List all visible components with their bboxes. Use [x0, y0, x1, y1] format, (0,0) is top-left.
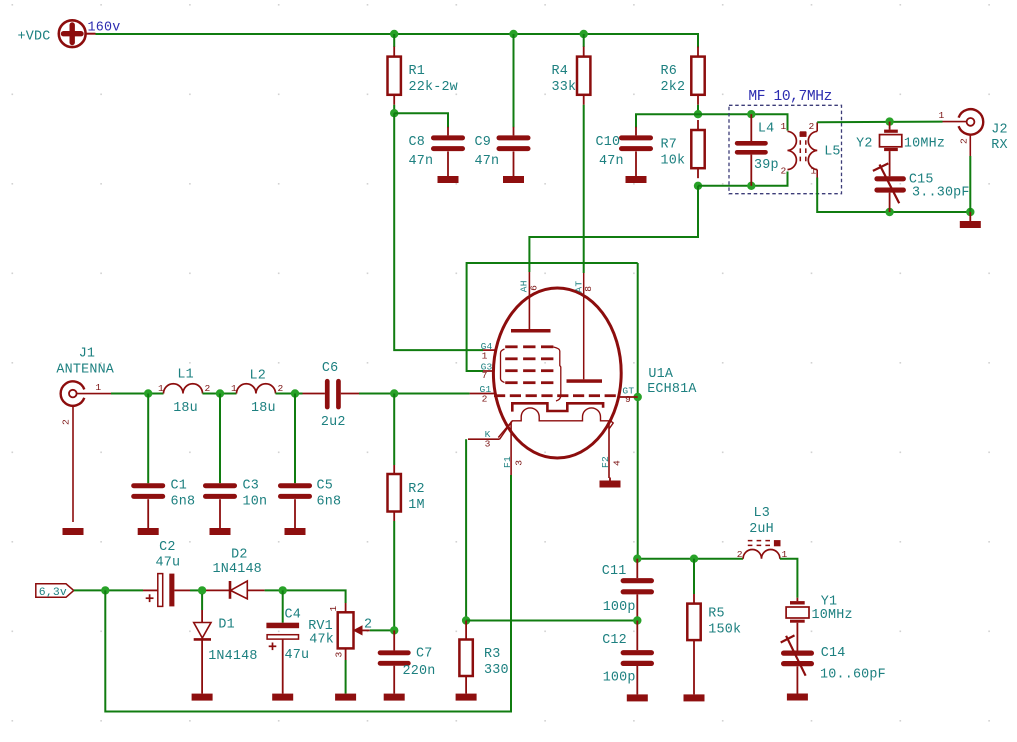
- tube U1A ECH81A envelope: [493, 288, 621, 458]
- ground C7: [384, 694, 405, 701]
- pin G4: [481, 341, 496, 361]
- ground C10: [626, 176, 647, 183]
- junction: [580, 30, 588, 38]
- svg-text:C4: C4: [285, 607, 301, 622]
- pin G1: [470, 384, 496, 404]
- svg-text:100p: 100p: [603, 670, 636, 685]
- diode D2: [206, 581, 265, 599]
- svg-text:150k: 150k: [708, 623, 741, 638]
- wire R1 top lead: [393, 34, 395, 47]
- svg-text:L1: L1: [177, 368, 193, 383]
- wire L3 to Y1: [780, 559, 798, 598]
- svg-text:C10: C10: [596, 135, 621, 150]
- svg-text:1N4148: 1N4148: [208, 649, 257, 664]
- ground C3: [210, 528, 231, 535]
- power symbol +VDC: [18, 20, 96, 47]
- transformer core: [799, 132, 801, 163]
- svg-text:L2: L2: [250, 369, 266, 384]
- svg-text:J2: J2: [991, 123, 1007, 138]
- svg-text:3: 3: [514, 460, 525, 466]
- junction: [633, 555, 641, 563]
- svg-text:18u: 18u: [173, 401, 198, 416]
- junction: [885, 208, 893, 216]
- svg-text:2: 2: [278, 383, 284, 394]
- svg-text:47n: 47n: [475, 154, 500, 169]
- junction: [747, 182, 755, 190]
- svg-text:C5: C5: [317, 479, 333, 494]
- svg-text:C1: C1: [171, 479, 187, 494]
- svg-text:47n: 47n: [599, 154, 624, 169]
- resistor R2: [388, 394, 425, 522]
- wire to C8: [394, 113, 448, 127]
- svg-text:220n: 220n: [403, 664, 436, 679]
- junction: [747, 110, 755, 118]
- svg-text:1N4148: 1N4148: [213, 562, 262, 577]
- resistor R4: [552, 47, 591, 105]
- svg-text:3..30pF: 3..30pF: [912, 186, 970, 201]
- pin K: [468, 421, 512, 450]
- svg-text:1M: 1M: [408, 498, 424, 513]
- svg-text:C7: C7: [416, 646, 432, 661]
- junction: [509, 30, 517, 38]
- svg-text:8: 8: [583, 286, 594, 292]
- svg-text:R1: R1: [409, 64, 425, 79]
- wire D2 to RV1: [265, 590, 346, 603]
- wire C10 to R6/R7 node: [636, 114, 698, 127]
- capacitor C12: [621, 621, 654, 695]
- capacitor C5: [278, 394, 312, 529]
- wire C8 to ground: [447, 151, 449, 176]
- wire L5 to J2: [817, 121, 942, 124]
- resistor R5: [687, 559, 741, 695]
- inductor L2: [237, 384, 276, 394]
- svg-text:4: 4: [612, 460, 623, 466]
- wire R2 bottom: [393, 521, 395, 630]
- ground D1: [192, 694, 213, 701]
- wire K node to C11/C12 node: [466, 620, 637, 622]
- tube control grid dashed row G1/GT: [494, 394, 616, 397]
- tube triode anode bar and lead: [567, 273, 603, 383]
- svg-text:L5: L5: [824, 145, 840, 160]
- pin F2: [600, 423, 623, 478]
- tube grid bracket left (G4): [501, 349, 505, 383]
- wire RV1 wiper to R2/C7 node: [370, 629, 394, 631]
- svg-text:2: 2: [61, 419, 72, 425]
- svg-text:Y2: Y2: [856, 136, 872, 151]
- svg-text:C8: C8: [409, 135, 425, 150]
- svg-text:47k: 47k: [309, 633, 334, 648]
- wire L2 to C6: [276, 393, 303, 395]
- diode D1: [194, 594, 211, 694]
- svg-text:47u: 47u: [156, 556, 181, 571]
- wire heater bus to F1: [105, 475, 511, 712]
- svg-text:D1: D1: [218, 618, 234, 633]
- junction: [291, 389, 299, 397]
- svg-text:22k-2w: 22k-2w: [409, 80, 458, 95]
- svg-text:R3: R3: [484, 647, 500, 662]
- pin AH lead into tube: [528, 272, 530, 330]
- potentiometer RV1: [328, 603, 370, 694]
- capacitor L4 parallel 39p: [735, 114, 768, 186]
- wire R4 bottom to tube AT (crosses AH wire): [583, 105, 585, 273]
- ground J2: [960, 212, 981, 228]
- svg-text:ECH81A: ECH81A: [647, 382, 697, 397]
- svg-text:2u2: 2u2: [321, 415, 346, 430]
- connector J2: [943, 109, 984, 156]
- crystal Y2: [880, 122, 902, 177]
- svg-text:+VDC: +VDC: [18, 29, 51, 44]
- pin GT: [619, 385, 638, 405]
- svg-text:9: 9: [625, 394, 631, 405]
- svg-text:C2: C2: [159, 540, 175, 555]
- ground C5: [285, 528, 306, 535]
- connector J1: [61, 381, 111, 522]
- svg-text:1: 1: [158, 383, 164, 394]
- junction: [634, 393, 642, 401]
- svg-text:R4: R4: [552, 64, 568, 79]
- capacitor C2 polarized: [143, 574, 190, 607]
- pin AH: [519, 280, 540, 292]
- tube cathode line: [498, 408, 613, 438]
- svg-text:C12: C12: [602, 633, 627, 648]
- svg-text:ANTENNA: ANTENNA: [56, 362, 114, 377]
- junction: [390, 109, 398, 117]
- capacitor C9: [497, 127, 531, 151]
- wire C9 top lead: [513, 34, 515, 128]
- svg-text:R5: R5: [708, 607, 724, 622]
- capacitor C11: [621, 559, 654, 621]
- wire R4 top lead: [583, 34, 585, 47]
- wire C2 to D2: [190, 589, 206, 591]
- svg-text:2: 2: [781, 166, 787, 177]
- inductor L4 primary winding: [788, 131, 797, 169]
- svg-text:1: 1: [781, 121, 787, 132]
- wire R1 bottom to junction: [393, 105, 395, 113]
- capacitor C3: [203, 394, 237, 529]
- svg-text:MF 10,7MHz: MF 10,7MHz: [748, 89, 832, 105]
- capacitor C6 series: [303, 379, 360, 410]
- svg-text:10k: 10k: [661, 154, 686, 169]
- junction: [633, 616, 641, 624]
- capacitor C4 polarized: [266, 590, 299, 693]
- svg-text:47n: 47n: [409, 154, 434, 169]
- wire K down: [465, 439, 467, 620]
- svg-text:R7: R7: [661, 138, 677, 153]
- svg-text:D2: D2: [231, 547, 247, 562]
- junction: [690, 555, 698, 563]
- ground C8: [438, 176, 459, 183]
- svg-text:6n8: 6n8: [171, 494, 196, 509]
- wire VDC bus: [96, 34, 699, 48]
- svg-text:C6: C6: [322, 361, 338, 376]
- ground C14: [787, 694, 808, 701]
- wire C10 to ground: [635, 151, 637, 176]
- wire 6,3v to C2: [74, 589, 143, 591]
- polarity square: [800, 131, 806, 137]
- crystal Y1: [786, 598, 809, 651]
- svg-text:1: 1: [95, 382, 101, 393]
- capacitor C1: [131, 394, 165, 529]
- svg-text:L4: L4: [758, 121, 774, 136]
- pin G3: [481, 361, 494, 381]
- pin F1: [502, 422, 525, 476]
- svg-text:6: 6: [528, 285, 539, 291]
- junction: [885, 117, 893, 125]
- svg-text:C11: C11: [602, 564, 627, 579]
- svg-text:10n: 10n: [243, 494, 268, 509]
- svg-text:J1: J1: [79, 347, 95, 362]
- svg-text:C14: C14: [821, 646, 846, 661]
- svg-text:L3: L3: [754, 506, 770, 521]
- inductor L1: [164, 384, 203, 394]
- ground RV1: [335, 694, 356, 701]
- tube screen rail: [512, 403, 603, 411]
- svg-text:10MHz: 10MHz: [904, 136, 945, 151]
- wire R6 bottom to junction: [697, 105, 699, 114]
- tube grid rows (heptode): [505, 345, 553, 384]
- wire L4 bottom: [698, 172, 788, 186]
- svg-text:1: 1: [328, 606, 339, 612]
- svg-text:1: 1: [482, 350, 488, 361]
- junction: [390, 389, 398, 397]
- capacitor C10: [619, 127, 653, 151]
- wire GT node to L3: [638, 558, 743, 560]
- trimmer capacitor C15: [873, 163, 906, 212]
- svg-text:2: 2: [737, 549, 743, 560]
- junction: [101, 586, 109, 594]
- wire L1 to L2: [203, 393, 237, 395]
- wire G3 to GT: [467, 263, 638, 371]
- svg-text:C9: C9: [475, 135, 491, 150]
- junction: [694, 110, 702, 118]
- junction: [216, 389, 224, 397]
- junction: [390, 30, 398, 38]
- tube heptode anode bar: [511, 329, 551, 333]
- svg-text:47u: 47u: [285, 648, 310, 663]
- resistor R3: [459, 621, 508, 694]
- ground R3: [456, 694, 477, 701]
- svg-text:2: 2: [205, 383, 211, 394]
- dashed box MF transformer: [729, 105, 842, 193]
- svg-text:3: 3: [334, 652, 345, 658]
- wire J2 pin2 down: [969, 156, 971, 212]
- capacitor C7: [378, 630, 411, 693]
- inductor L5 secondary winding: [808, 122, 817, 177]
- svg-text:39p: 39p: [754, 158, 779, 173]
- resistor R6: [661, 47, 705, 105]
- svg-text:2: 2: [959, 138, 970, 144]
- resistor R1: [388, 47, 458, 105]
- svg-text:F1: F1: [502, 456, 513, 468]
- svg-text:2: 2: [482, 394, 488, 405]
- global label 6,3v: [36, 584, 74, 599]
- capacitor C8: [431, 127, 465, 151]
- svg-text:R6: R6: [661, 64, 677, 79]
- svg-text:U1A: U1A: [648, 367, 673, 382]
- junction: [390, 626, 398, 634]
- ground C12: [627, 694, 648, 701]
- pin AT: [574, 281, 594, 293]
- svg-text:100p: 100p: [603, 600, 636, 615]
- wire L4 top: [698, 114, 788, 130]
- svg-text:1: 1: [811, 166, 817, 177]
- svg-text:10..60pF: 10..60pF: [820, 667, 886, 682]
- svg-text:RX: RX: [991, 138, 1007, 153]
- wire C6 to G1: [359, 393, 470, 395]
- junction: [198, 586, 206, 594]
- ground J1: [63, 528, 84, 535]
- svg-text:6n8: 6n8: [317, 494, 342, 509]
- ground C1: [138, 528, 159, 535]
- svg-text:C3: C3: [243, 479, 259, 494]
- svg-text:33k: 33k: [552, 80, 577, 95]
- tube grid bracket right: [554, 347, 561, 401]
- svg-text:F2: F2: [600, 456, 611, 468]
- junction: [694, 182, 702, 190]
- svg-text:2k2: 2k2: [661, 80, 686, 95]
- ground C9: [503, 176, 524, 183]
- junction: [966, 208, 974, 216]
- wire G4 net: [394, 113, 483, 350]
- resistor R7: [661, 120, 705, 178]
- ground F2: [600, 478, 621, 488]
- svg-text:1: 1: [939, 110, 945, 121]
- ground C4: [272, 694, 293, 701]
- wire secondary ground rail: [817, 178, 970, 213]
- ground R5: [684, 694, 705, 701]
- svg-text:RV1: RV1: [308, 619, 333, 634]
- wire AH net: [529, 186, 698, 272]
- svg-text:2uH: 2uH: [749, 522, 774, 537]
- svg-text:3: 3: [485, 439, 491, 450]
- svg-text:10MHz: 10MHz: [812, 608, 853, 623]
- junction: [462, 616, 470, 624]
- wire GT vertical: [637, 263, 639, 559]
- junction: [144, 389, 152, 397]
- wire C9 to ground: [513, 151, 515, 176]
- svg-text:1: 1: [231, 383, 237, 394]
- svg-text:2: 2: [809, 121, 815, 132]
- wire J1 to L1: [111, 393, 164, 395]
- svg-text:330: 330: [484, 663, 509, 678]
- svg-text:R2: R2: [408, 482, 424, 497]
- svg-text:6,3v: 6,3v: [39, 587, 67, 599]
- svg-text:7: 7: [482, 370, 488, 381]
- inductor L3: [743, 540, 780, 559]
- trimmer capacitor C14: [781, 635, 814, 693]
- junction: [279, 586, 287, 594]
- svg-text:18u: 18u: [251, 401, 276, 416]
